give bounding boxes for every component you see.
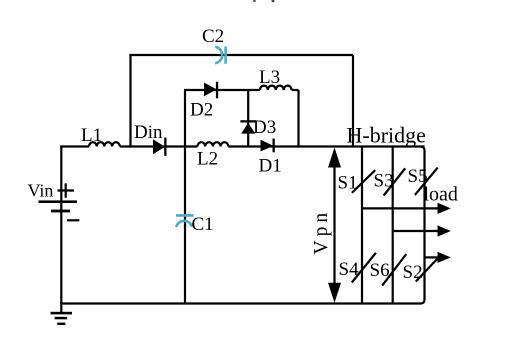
svg-text:Vin: Vin	[28, 181, 54, 201]
wire H-bridge right leg	[421, 147, 425, 304]
diode D3	[240, 120, 256, 133]
wire D2 top rail	[184, 89, 260, 91]
switch slash S6	[382, 254, 406, 286]
svg-text:S2: S2	[403, 262, 423, 283]
top edge cropped marks	[253, 0, 255, 2]
battery Vin top plate	[39, 200, 77, 203]
capacitor C2	[215, 47, 225, 64]
inductor L3	[260, 86, 292, 90]
diode D2	[204, 82, 218, 99]
svg-text:L1: L1	[81, 125, 102, 146]
svg-text:H-bridge: H-bridge	[347, 123, 426, 148]
Vpn arrow	[328, 148, 341, 303]
load arrowheads	[438, 203, 451, 263]
wire output phase A	[362, 207, 439, 209]
svg-text:load: load	[424, 184, 458, 206]
wire C2 top rail	[129, 54, 353, 56]
switch slash S1	[352, 170, 375, 193]
switch slash S2	[416, 256, 440, 282]
svg-text:C2: C2	[202, 26, 224, 47]
switch slash S5	[415, 168, 438, 195]
ground	[51, 312, 73, 325]
wire output phase B	[393, 230, 439, 232]
wire C2 branch right vertical	[352, 55, 354, 147]
svg-text:S1: S1	[338, 173, 358, 194]
wire D3 middle vertical	[247, 90, 249, 147]
svg-text:Din: Din	[134, 122, 163, 143]
wire L3 to right vertical	[292, 89, 299, 91]
capacitor C1	[176, 215, 194, 227]
wire main rail segment 3	[228, 145, 424, 147]
diode Din	[153, 138, 167, 156]
wire bottom rail	[60, 302, 421, 304]
svg-text:D2: D2	[190, 100, 213, 121]
inductor L1	[89, 142, 120, 146]
svg-text:D3: D3	[253, 117, 276, 138]
battery Vin bottom plate	[51, 210, 70, 213]
svg-text:S6: S6	[370, 260, 390, 281]
wire H-bridge leg 1	[361, 147, 363, 304]
switch slash S4	[352, 253, 376, 283]
diode D1	[261, 139, 275, 153]
wire C1 branch vertical	[184, 147, 186, 304]
wire C2 branch left vertical	[129, 55, 131, 147]
wire main rail segment 1	[60, 145, 89, 147]
wire main rail segment 2	[120, 145, 198, 147]
svg-text:L3: L3	[259, 67, 280, 88]
wire left rail	[60, 147, 62, 314]
wire box left vertical	[184, 90, 186, 147]
svg-text:C1: C1	[192, 214, 214, 235]
svg-text:Vpn: Vpn	[311, 209, 332, 255]
svg-text:D1: D1	[259, 156, 282, 177]
svg-text:S5: S5	[408, 166, 428, 187]
svg-text:L2: L2	[197, 149, 218, 170]
label battery minus	[67, 219, 79, 221]
svg-text:S3: S3	[374, 170, 394, 191]
wire box right vertical	[297, 90, 299, 147]
label battery plus	[58, 183, 75, 197]
switch slash S3	[384, 168, 406, 195]
svg-text:S4: S4	[339, 259, 360, 280]
inductor L2	[198, 142, 229, 146]
wire output phase C	[425, 256, 440, 258]
wire H-bridge leg 2	[392, 147, 394, 304]
